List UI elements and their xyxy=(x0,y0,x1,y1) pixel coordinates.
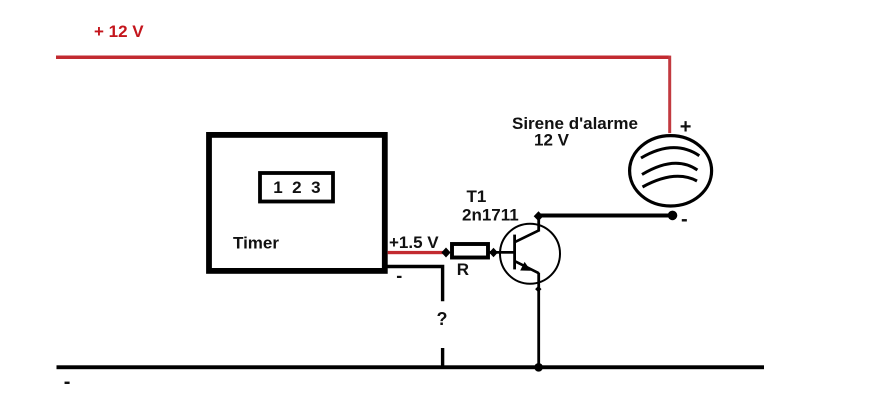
svg-text:T1: T1 xyxy=(467,187,487,206)
svg-text:+1.5 V: +1.5 V xyxy=(389,233,439,252)
svg-text:?: ? xyxy=(437,309,448,329)
svg-text:1 2 3: 1 2 3 xyxy=(273,178,323,197)
svg-text:Timer: Timer xyxy=(233,234,279,253)
svg-text:-: - xyxy=(681,208,688,230)
svg-text:-: - xyxy=(396,265,402,285)
svg-text:Sirene d'alarme: Sirene d'alarme xyxy=(512,114,638,133)
svg-text:2n1711: 2n1711 xyxy=(462,205,519,224)
svg-text:+ 12 V: + 12 V xyxy=(94,22,144,41)
svg-text:R: R xyxy=(457,260,469,279)
svg-text:+: + xyxy=(680,116,692,138)
svg-text:12 V: 12 V xyxy=(534,131,570,150)
svg-text:-: - xyxy=(64,371,71,393)
